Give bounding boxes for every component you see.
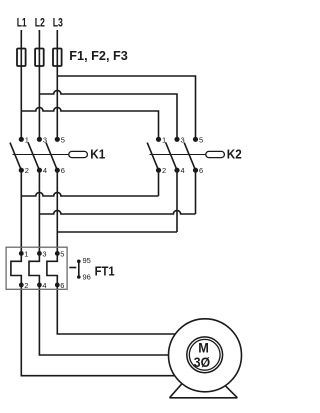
svg-text:K2: K2: [227, 146, 242, 161]
svg-text:F1, F2, F3: F1, F2, F3: [69, 48, 128, 63]
svg-text:3: 3: [43, 135, 47, 144]
svg-text:2: 2: [25, 166, 29, 175]
svg-text:2: 2: [24, 281, 28, 290]
svg-text:95: 95: [83, 256, 91, 265]
svg-text:1: 1: [24, 249, 28, 258]
svg-text:5: 5: [60, 249, 64, 258]
svg-text:FT1: FT1: [95, 264, 115, 279]
svg-text:6: 6: [199, 166, 203, 175]
svg-text:4: 4: [42, 281, 46, 290]
svg-text:1: 1: [162, 135, 166, 144]
svg-text:3: 3: [181, 135, 185, 144]
svg-text:96: 96: [83, 273, 91, 282]
svg-text:K1: K1: [90, 146, 105, 161]
svg-text:L2: L2: [35, 16, 45, 30]
svg-text:L1: L1: [17, 16, 27, 30]
svg-text:6: 6: [61, 166, 65, 175]
svg-text:4: 4: [43, 166, 47, 175]
svg-text:5: 5: [61, 135, 65, 144]
svg-text:1: 1: [25, 135, 29, 144]
svg-text:2: 2: [162, 166, 166, 175]
svg-text:5: 5: [199, 135, 203, 144]
svg-text:3Ø: 3Ø: [194, 355, 210, 370]
svg-text:M: M: [198, 341, 209, 356]
svg-text:L3: L3: [53, 16, 63, 30]
svg-text:4: 4: [181, 166, 185, 175]
svg-text:3: 3: [42, 249, 46, 258]
svg-text:6: 6: [60, 281, 64, 290]
